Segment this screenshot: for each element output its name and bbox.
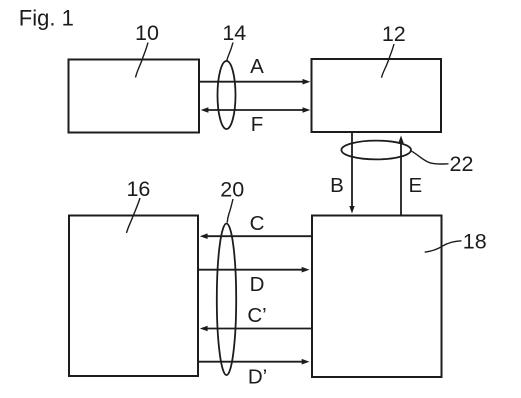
block 18 bbox=[312, 216, 442, 378]
wire E (block 18 up to block 12) bbox=[398, 136, 403, 216]
ellipse 14 (channel bundle) bbox=[218, 61, 236, 129]
leader line to ellipse 20 bbox=[227, 199, 233, 223]
leader line to ellipse 14 bbox=[227, 43, 233, 62]
block 16 bbox=[69, 216, 198, 377]
wire C (block 18 to block 16) bbox=[200, 233, 312, 239]
leader line to label 18 bbox=[425, 241, 462, 252]
wire F (bidirectional between block 10 and block 12) bbox=[201, 107, 311, 113]
ellipse 20 (channel bundle) bbox=[217, 223, 236, 375]
svg-text:12: 12 bbox=[382, 22, 406, 46]
leader line to block 12 bbox=[382, 44, 395, 78]
svg-text:E: E bbox=[409, 174, 423, 197]
svg-text:18: 18 bbox=[463, 230, 487, 254]
wire D' (block 16 to block 18) bbox=[198, 359, 310, 365]
leader line to block 10 bbox=[136, 43, 149, 78]
svg-text:22: 22 bbox=[450, 152, 474, 176]
svg-text:C’: C’ bbox=[247, 304, 266, 327]
svg-text:20: 20 bbox=[220, 177, 244, 201]
block 10 bbox=[69, 60, 200, 133]
wire B (block 12 down to block 18) bbox=[349, 132, 354, 214]
block 12 bbox=[312, 59, 442, 132]
wire C' (block 18 to block 16) bbox=[200, 326, 312, 332]
svg-text:D’: D’ bbox=[248, 366, 267, 389]
svg-text:D: D bbox=[250, 273, 265, 296]
svg-text:F: F bbox=[251, 113, 264, 136]
svg-text:A: A bbox=[250, 55, 264, 78]
leader line to block 16 bbox=[127, 198, 141, 233]
svg-text:16: 16 bbox=[126, 177, 150, 201]
svg-text:10: 10 bbox=[135, 21, 159, 45]
wire D (block 16 to block 18) bbox=[198, 267, 310, 273]
svg-text:Fig. 1: Fig. 1 bbox=[19, 6, 74, 31]
leader line to ellipse 22 bbox=[412, 151, 449, 164]
svg-text:C: C bbox=[250, 212, 265, 235]
wire A (block 10 to block 12) bbox=[199, 79, 310, 85]
ellipse 22 (channel bundle) bbox=[341, 141, 411, 160]
svg-text:14: 14 bbox=[222, 21, 246, 45]
svg-text:B: B bbox=[330, 174, 344, 197]
